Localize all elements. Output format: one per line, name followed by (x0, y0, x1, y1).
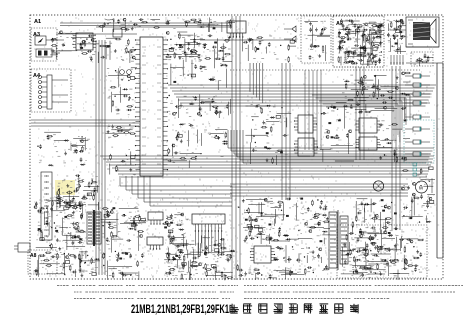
svg-text:21MB1,21NB1,29FB1,29FK1: 21MB1,21NB1,29FB1,29FK1 (131, 304, 229, 316)
svg-text:A3: A3 (33, 32, 40, 38)
svg-text:A4: A4 (33, 73, 41, 79)
svg-text:A1: A1 (34, 19, 41, 25)
svg-text:A8: A8 (30, 253, 37, 259)
